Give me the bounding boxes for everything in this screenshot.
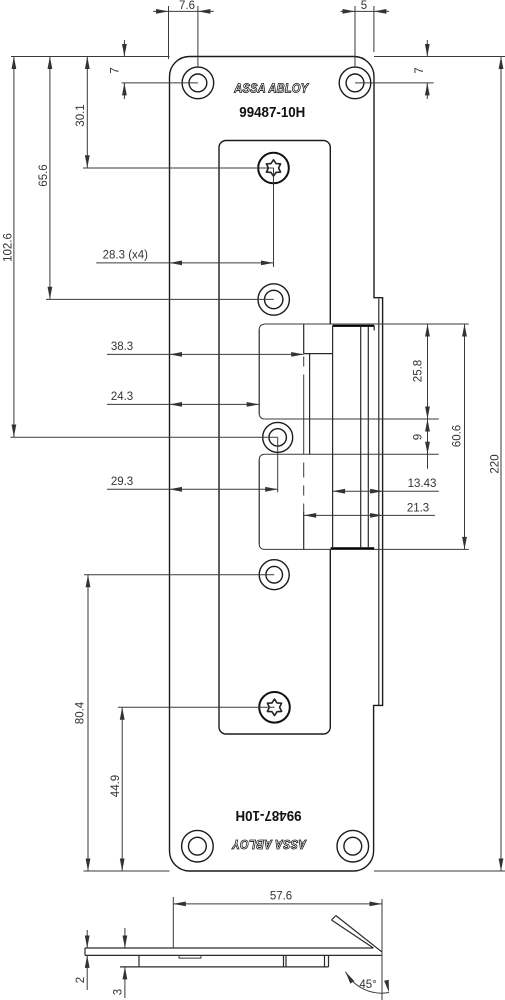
svg-text:7.6: 7.6 (179, 0, 195, 12)
torx screw T5 (259, 692, 290, 723)
svg-text:45°: 45° (359, 979, 376, 991)
torx screw T1 (258, 153, 289, 184)
svg-text:13.43: 13.43 (408, 478, 437, 490)
dim 24.3 (107, 403, 259, 405)
lower cavity bottom edge + extension for 60.6 (259, 544, 264, 549)
svg-text:44.9: 44.9 (110, 775, 122, 797)
dim 57.6 (172, 897, 174, 948)
bottom edge extension line (374, 870, 505, 872)
hole 3 middle (263, 422, 293, 452)
hole 4 (259, 560, 289, 590)
jaw vertical edge solid/centerline x=303.7 (303, 324, 305, 354)
svg-text:9: 9 (413, 434, 425, 440)
svg-text:80.4: 80.4 (75, 701, 87, 724)
svg-text:65.6: 65.6 (38, 164, 50, 186)
svg-text:2: 2 (75, 977, 87, 983)
lip 45deg in side view (336, 916, 382, 953)
svg-text:30.1: 30.1 (75, 104, 87, 126)
dim 60.6 (464, 324, 466, 549)
dim 2 (86, 930, 88, 948)
side view left end cap (84, 948, 86, 955)
lower cavity top edge + extension (259, 454, 264, 459)
dim 3 (124, 928, 126, 948)
svg-text:ASSA ABLOY: ASSA ABLOY (233, 81, 309, 96)
svg-text:ASSA ABLOY: ASSA ABLOY (231, 837, 307, 852)
dim 220 (500, 57, 502, 872)
dim 9 (427, 419, 429, 469)
hole top-right (339, 67, 371, 99)
svg-text:102.6: 102.6 (3, 233, 15, 262)
dim 38.3 (107, 353, 304, 355)
dim 29.3 (277, 437, 279, 492)
hole 2 (258, 284, 289, 315)
dim 7 left (122, 82, 198, 84)
svg-text:7: 7 (414, 67, 426, 73)
jaw vertical edge x=309.6 (309, 354, 311, 455)
pad middle ticks (283, 955, 285, 967)
latch box (333, 325, 375, 327)
dim 21.3 (304, 514, 435, 516)
dim 45 degrees arc (346, 972, 390, 993)
svg-text:28.3 (x4): 28.3 (x4) (103, 250, 149, 262)
dim 25.8 (427, 324, 429, 419)
pad left cap (138, 955, 140, 967)
svg-text:25.8: 25.8 (413, 360, 425, 382)
pad right cap (328, 955, 330, 967)
svg-text:57.6: 57.6 (270, 891, 292, 903)
side view top surface (85, 947, 373, 949)
svg-text:3: 3 (113, 989, 125, 995)
dim 30.1 (83, 167, 274, 169)
dim 5 top-right (354, 6, 356, 67)
dim 44.9 (118, 706, 275, 708)
side view notch (179, 955, 201, 958)
dim 7 right (355, 82, 434, 84)
svg-text:7: 7 (110, 67, 122, 73)
hole top-left (182, 67, 214, 99)
inner gasket rounded rect (interrupted by cavity on right edge) (219, 141, 330, 735)
svg-text:5: 5 (361, 0, 367, 12)
plate outline with right lip cutout (170, 57, 383, 872)
top edge extension line (11, 56, 170, 58)
dim 13.43 (333, 490, 439, 492)
hole bottom-right (337, 830, 369, 862)
hole bottom-left (182, 830, 214, 862)
dim 7.6 top-left (168, 6, 170, 59)
svg-text:24.3: 24.3 (111, 391, 133, 403)
dim 80.4 (84, 574, 274, 576)
jaw step horizontal edge y=353.6 (304, 353, 333, 355)
upper cavity bottom edge + extension for 9 dim (259, 414, 264, 419)
dim 28.3 (x4) (273, 168, 275, 267)
cavity top edge + extension line for 25.8/60.6 (259, 324, 264, 329)
svg-text:99487-10H: 99487-10H (239, 105, 305, 121)
svg-text:99487-10H: 99487-10H (236, 807, 302, 823)
upper cavity left edge (258, 329, 260, 414)
dim 65.6 (46, 298, 274, 300)
svg-text:60.6: 60.6 (452, 425, 464, 447)
lip inner edge line (378, 299, 380, 706)
svg-text:29.3: 29.3 (111, 476, 133, 488)
lower cavity left edge (258, 459, 260, 544)
side view pad bottom (120, 966, 329, 968)
svg-text:220: 220 (490, 454, 502, 473)
svg-text:21.3: 21.3 (407, 503, 429, 515)
svg-text:38.3: 38.3 (111, 341, 133, 353)
side view bottom surface (85, 954, 382, 956)
dim 102.6 (11, 436, 278, 438)
